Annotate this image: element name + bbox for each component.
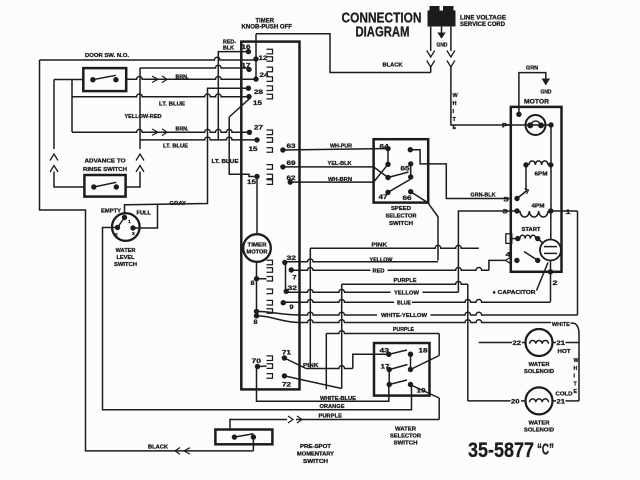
svg-text:1: 1 (128, 219, 131, 225)
speed selector mid-left contact (385, 172, 408, 180)
label RED (373, 269, 385, 275)
svg-text:15: 15 (247, 179, 256, 186)
part number 35-5877 C (468, 439, 554, 462)
label PINK (upper) (372, 242, 388, 248)
svg-text:SOLENOID: SOLENOID (524, 369, 554, 375)
label WATER SOLENOID hot (524, 362, 554, 375)
wire left loop from row 12 down and around to BLACK (40, 60, 254, 451)
svg-text:8: 8 (254, 319, 258, 326)
svg-text:WATER: WATER (529, 362, 550, 368)
timer terminal 12 (253, 55, 272, 62)
svg-text:LT. BLUE: LT. BLUE (212, 159, 239, 165)
label YELLOW (row to motor 3) (394, 291, 420, 297)
svg-text:YEL-BLK: YEL-BLK (328, 161, 352, 167)
svg-text:66: 66 (403, 195, 412, 202)
wire cold solenoid 20 row (468, 400, 526, 402)
svg-text:BLACK: BLACK (148, 444, 168, 450)
wire WHITE row timer 8 to hot solenoid 21 (257, 316, 300, 323)
water level switch contact 2 (115, 225, 120, 238)
label ORANGE (320, 404, 345, 410)
svg-text:MOTOR: MOTOR (524, 100, 550, 106)
svg-text:BLUE: BLUE (397, 301, 411, 307)
svg-text:E: E (574, 389, 578, 395)
speed selector contact 66 (403, 189, 414, 202)
wire plug left pin with connector chevrons (427, 27, 435, 73)
svg-text:27: 27 (254, 125, 263, 132)
timer terminal 69 (267, 160, 296, 170)
wire timer motor bottom to terminal 8 (256, 262, 258, 316)
label WHITE (inline) (552, 322, 570, 328)
connector chevron at motor 4 (506, 257, 511, 263)
pre-spot momentary switch box (215, 430, 272, 445)
label DOOR SW. N.O. (85, 53, 129, 59)
svg-text:LT. BLUE: LT. BLUE (159, 102, 185, 108)
motor speed switch lever and terminal 5 (504, 189, 529, 204)
label PURPLE (row 72) (394, 278, 417, 284)
svg-text:PRE-SPOT: PRE-SPOT (300, 444, 332, 450)
connector arrows BLACK row (175, 448, 190, 455)
svg-text:24: 24 (260, 72, 269, 79)
svg-text:69: 69 (287, 160, 296, 167)
timer motor circle (243, 234, 271, 262)
svg-text:SPEED: SPEED (391, 206, 411, 212)
wire WH-PUR from terminal 63 to speed selector 64 (283, 149, 388, 150)
svg-text:7: 7 (293, 274, 297, 281)
svg-text:SELECTOR: SELECTOR (386, 214, 417, 220)
wire WHITE-BLUE timer 70 to water selector (257, 367, 389, 402)
label YEL-BLK (328, 161, 352, 167)
pre-spot switch contacts and lever (232, 434, 256, 440)
svg-text:32: 32 (288, 285, 298, 292)
wire PURPLE selector top run (326, 331, 439, 334)
wire rinse switch left riser with chevrons to door wire (50, 80, 84, 188)
wire RED-BLK riser from terminal 16 (218, 52, 248, 140)
label WATER SOLENOID cold (524, 421, 554, 434)
wire speed selector 66 to yellow row (411, 192, 438, 261)
label RED-BLK (223, 40, 236, 52)
wire row to terminal 17 from yellow-red riser (140, 65, 249, 68)
water selector lower contacts (387, 380, 414, 387)
wire WHITE riser between solenoids (578, 343, 580, 401)
label LINE VOLTAGE SERVICE CORD (460, 16, 506, 29)
wire GRN-BLK speed selector 65 to motor 5 (428, 164, 511, 199)
label WATER SELECTOR SWITCH (390, 427, 421, 447)
wire YELLOW row timer 32b to motor 3 (286, 289, 390, 292)
speed selector contact 64 pair (380, 143, 391, 167)
svg-text:4PM: 4PM (532, 204, 545, 210)
ground symbol GND of cord (437, 27, 448, 49)
svg-text:YELLOW: YELLOW (370, 257, 394, 263)
svg-text:21: 21 (557, 399, 566, 405)
wire water level contact 3 to gray junction (133, 205, 158, 229)
wire PINK link to selector 43 (310, 366, 353, 369)
timer terminal 9 (267, 300, 294, 311)
svg-text:16: 16 (242, 44, 251, 51)
timer terminal 32a (267, 255, 297, 265)
wire motor circle to right bus (548, 122, 553, 165)
svg-text:15: 15 (249, 146, 258, 153)
label MOTOR (524, 100, 550, 106)
svg-text:WHITE: WHITE (552, 322, 570, 328)
timer terminal 15a (246, 94, 272, 107)
svg-text:3: 3 (132, 231, 135, 237)
label GRAY (170, 201, 187, 207)
svg-text:RINSE SWITCH: RINSE SWITCH (83, 167, 127, 173)
svg-text:PURPLE: PURPLE (319, 413, 343, 419)
timer knob riser to terminal 12 (255, 34, 257, 59)
wire WHITE-YELLOW row timer 8 to motor 1 (257, 311, 300, 315)
timer terminal 27 (247, 125, 273, 135)
svg-text:SOLENOID: SOLENOID (524, 427, 554, 433)
svg-text:71: 71 (282, 350, 291, 357)
timer terminal 16 (242, 44, 273, 54)
label WHITE-YELLOW (381, 313, 428, 319)
timer terminal 72 (267, 373, 292, 388)
wire PURPLE pre-spot run (230, 420, 439, 430)
svg-text:GRAY: GRAY (170, 201, 187, 207)
svg-text:MOMENTARY: MOMENTARY (297, 452, 335, 458)
label BRN (door) (176, 75, 189, 81)
timer terminal 62 (267, 175, 296, 185)
svg-text:BRN.: BRN. (176, 75, 189, 81)
svg-text:H: H (453, 101, 457, 107)
svg-text:63: 63 (287, 143, 296, 150)
svg-text:28: 28 (254, 89, 263, 96)
svg-text:SERVICE CORD: SERVICE CORD (460, 22, 506, 28)
svg-text:SWITCH: SWITCH (394, 441, 418, 447)
svg-text:BLK: BLK (223, 46, 234, 52)
water selector switch box (374, 343, 430, 396)
wire GRN motor to ground (519, 73, 546, 115)
label P and motor terminal P (502, 124, 551, 130)
water level switch contact 1 (122, 215, 131, 225)
wire water level contact 2 to orange run (103, 228, 412, 410)
motor start switch contacts terminal 4 (506, 252, 541, 264)
water level switch circle (112, 213, 140, 241)
svg-text:HOT: HOT (558, 349, 572, 355)
svg-text:DIAGRAM: DIAGRAM (356, 25, 410, 41)
svg-text:SWITCH: SWITCH (114, 262, 137, 268)
timer terminal 63 (267, 143, 296, 153)
wire plug right pin WHITE with connector chevrons (447, 27, 511, 125)
speed selector switch box (374, 139, 429, 202)
label PURPLE (pre-spot) (319, 413, 343, 419)
wire cold solenoid 21 row (553, 400, 580, 402)
wire BLACK from timer knob to line cord (256, 34, 431, 73)
water selector mid right contact (408, 367, 413, 372)
wire BRN row from door riser to terminal 27 (72, 129, 249, 132)
label GRN (526, 66, 538, 72)
label WATER LEVEL SWITCH (114, 248, 137, 268)
water selector contact 43 (380, 348, 408, 357)
svg-text:MOTOR: MOTOR (247, 250, 268, 256)
connector arrows BRN row 27 (152, 129, 167, 136)
svg-text:BLACK: BLACK (383, 63, 403, 69)
svg-text:GRN: GRN (526, 66, 538, 72)
svg-text:62: 62 (287, 175, 296, 182)
svg-text:LINE VOLTAGE: LINE VOLTAGE (460, 16, 506, 22)
svg-text:TIMER: TIMER (248, 243, 267, 249)
capacitor circle in motor (540, 240, 561, 261)
wire BLUE row timer 9 to capacitor 2 (283, 300, 394, 303)
label 22 (513, 341, 522, 347)
svg-text:GND: GND (437, 43, 448, 49)
svg-text:LEVEL: LEVEL (117, 255, 136, 261)
wire LT BLUE riser to terminal 15c (229, 117, 257, 177)
label 20 (511, 399, 520, 405)
svg-text:WHITE-BLUE: WHITE-BLUE (320, 396, 356, 402)
label YELLOW (row to 66) (370, 257, 394, 263)
svg-text:70: 70 (252, 358, 262, 365)
wire PINK row to hot solenoid 22 (310, 245, 479, 248)
svg-text:PURPLE: PURPLE (394, 278, 417, 284)
svg-text:H: H (574, 366, 578, 372)
timer terminal 24 (253, 72, 272, 82)
connector arrows pre-spot purple (288, 416, 302, 423)
timer terminal 28 (246, 86, 273, 97)
svg-text:KNOB-PUSH OFF: KNOB-PUSH OFF (242, 25, 293, 31)
wire yellow-red riser from row 17 to rinse switch right with chevrons (126, 68, 144, 187)
speed selector contact 65 pair (401, 161, 414, 180)
timer jumper 12-24 (255, 59, 257, 79)
wire start winding to centrifugal circle (538, 239, 544, 244)
wire PINK riser from terminal 71 (284, 248, 310, 368)
svg-text:35-5877: 35-5877 (468, 439, 534, 462)
svg-text:TIMER: TIMER (256, 18, 275, 24)
svg-text:2: 2 (115, 232, 118, 238)
svg-text:“C”: “C” (537, 442, 554, 459)
svg-text:BRN.: BRN. (176, 126, 189, 132)
svg-text:♦ CAPACITOR: ♦ CAPACITOR (493, 290, 536, 296)
wire YEL-BLK from terminal 69 to speed selector (283, 167, 388, 178)
label ADVANCE TO RINSE SWITCH (83, 158, 127, 173)
line cord plug (428, 6, 456, 27)
motor right bus to capacitor (550, 211, 552, 240)
motor box (511, 107, 562, 272)
svg-text:15: 15 (253, 100, 262, 107)
door switch box (83, 68, 126, 91)
label LT. BLUE (row 15b) (163, 144, 188, 150)
timer terminal 32b (267, 285, 298, 294)
svg-text:SWITCH: SWITCH (389, 221, 413, 227)
label BLACK (cord) (383, 63, 403, 69)
label HOT (558, 349, 572, 355)
water selector contact 18 (408, 348, 428, 370)
svg-text:WH-BRN: WH-BRN (328, 177, 352, 183)
svg-text:PINK: PINK (372, 242, 388, 248)
water level switch contact 3 (130, 225, 135, 237)
motor start terminal lug (506, 234, 518, 244)
label 21 hot (557, 341, 566, 347)
svg-text:YELLOW: YELLOW (394, 291, 420, 297)
svg-text:SWITCH: SWITCH (303, 459, 328, 465)
svg-text:22: 22 (513, 341, 522, 347)
wire hot solenoid 22 row (479, 342, 525, 344)
wire RED row timer 7 to motor 4 (291, 268, 370, 271)
label WH-PUR (330, 144, 352, 150)
motor GRN junction dot (516, 112, 521, 117)
svg-text:COLD: COLD (556, 391, 573, 397)
ground symbol GND (motor) (541, 79, 552, 96)
svg-text:WH-PUR: WH-PUR (330, 144, 352, 150)
timer terminal 8 upper (251, 276, 273, 287)
svg-text:WHITE-YELLOW: WHITE-YELLOW (381, 313, 428, 319)
label GRN-BLK (471, 192, 496, 198)
rinse switch contacts and lever (91, 182, 119, 189)
svg-text:ORANGE: ORANGE (320, 404, 345, 410)
wire 6PM to speed contact (525, 165, 527, 191)
wire door switch right BRN to terminal 24 (126, 77, 256, 80)
timer terminal 15c (247, 174, 273, 186)
label 21 cold (557, 399, 566, 405)
label PINK (lower) (303, 363, 319, 369)
advance to rinse switch box (84, 175, 125, 197)
title CONNECTION DIAGRAM (342, 11, 422, 41)
wire row to terminal 12 over door switch (40, 57, 257, 60)
wire YELLOW row timer 32a to speed selector 66 riser (285, 259, 438, 262)
label START (522, 227, 542, 233)
timer terminal 71 (267, 350, 292, 361)
motor terminal 1 wire (551, 210, 578, 216)
label WHITE vertical (cord to motor) (453, 93, 459, 131)
svg-text:YELLOW-RED: YELLOW-RED (125, 114, 162, 120)
label FULL (137, 210, 152, 216)
label WH-BRN (328, 177, 352, 183)
label COLD (556, 391, 573, 397)
label BLACK (bottom) (148, 444, 168, 450)
label PURPLE (selector top) (393, 327, 414, 333)
timer terminal 15b (249, 137, 273, 153)
svg-text:PURPLE: PURPLE (393, 327, 414, 333)
svg-text:FULL: FULL (137, 210, 152, 216)
svg-text:8: 8 (251, 280, 255, 287)
svg-text:GND: GND (541, 90, 552, 96)
wire WH-BRN from terminal 62 to speed selector (290, 164, 388, 182)
label LT. BLUE (row 15a) (159, 102, 185, 108)
svg-text:32: 32 (287, 255, 297, 262)
wire selector right riser and diagonal to contact 18 (411, 334, 440, 370)
label YELLOW-RED (125, 114, 162, 120)
svg-text:WATER: WATER (116, 248, 136, 254)
svg-text:47: 47 (379, 194, 388, 201)
wire hot solenoid 21 row (553, 342, 579, 344)
label PRE-SPOT MOMENTARY SWITCH (297, 444, 335, 465)
timer terminal 17 (242, 63, 273, 73)
wire capacitor bottom terminal 2 (548, 261, 559, 302)
svg-text:SELECTOR: SELECTOR (390, 434, 421, 440)
wire timer motor top to terminal 15c (256, 177, 258, 235)
motor start winding (515, 235, 540, 241)
label LT. BLUE (riser 15c) (212, 159, 239, 165)
svg-text:W: W (453, 93, 459, 99)
svg-text:LT. BLUE: LT. BLUE (163, 144, 188, 150)
motor main winding circle (526, 115, 546, 135)
svg-text:RED: RED (373, 269, 385, 275)
wire PURPLE row timer 72 to cold solenoid 20 (284, 284, 341, 388)
svg-text:START: START (522, 227, 542, 233)
svg-text:20: 20 (511, 399, 520, 405)
svg-text:21: 21 (557, 341, 566, 347)
water selector contact 19 (417, 387, 426, 394)
wire pre-spot to BLACK row (252, 437, 254, 451)
water level switch lever 1-2 (118, 218, 125, 228)
label WHITE vertical (solenoids) (574, 358, 579, 395)
speed selector contact 47 (379, 180, 411, 202)
label SPEED SELECTOR SWITCH (386, 206, 417, 227)
timer assembly box (241, 42, 299, 390)
speed selector top right contact (408, 147, 429, 164)
svg-text:DOOR SW. N.O.: DOOR SW. N.O. (85, 53, 129, 59)
hot water solenoid circle (526, 329, 553, 356)
svg-text:72: 72 (282, 382, 291, 389)
svg-text:W: W (574, 358, 579, 364)
svg-text:WATER: WATER (529, 421, 550, 427)
connector arrows BRN door switch wire (152, 76, 167, 83)
timer terminal 8 lower (254, 309, 273, 327)
svg-text:18: 18 (419, 348, 428, 355)
label BLUE (397, 301, 411, 307)
label BRN (row 27) (176, 126, 189, 132)
timer terminal 7 (267, 267, 297, 281)
svg-text:E: E (453, 125, 457, 131)
label 4PM (532, 204, 545, 210)
wire selector 19 diagonal to pre-spot run (412, 386, 439, 420)
svg-text:9: 9 (290, 304, 294, 311)
wire door switch left to BRN row (terminal 27) (54, 80, 83, 133)
svg-text:GRN-BLK: GRN-BLK (471, 192, 496, 198)
label TIMER KNOB-PUSH OFF (242, 18, 293, 30)
door switch contacts and lever (90, 75, 118, 82)
timer jumper 32-32 (285, 263, 287, 292)
svg-text:65: 65 (401, 166, 410, 173)
cold water solenoid circle (526, 387, 553, 414)
label EMPTY (101, 209, 121, 215)
label WHITE-BLUE (320, 396, 356, 402)
svg-text:6PM: 6PM (535, 172, 548, 178)
motor 6PM winding (523, 161, 553, 178)
motor terminal 3 and 4PM winding (503, 208, 554, 217)
svg-text:EMPTY: EMPTY (101, 209, 121, 215)
wire LT BLUE row to terminal 15a from rinse switch left (72, 94, 249, 97)
label CAPACITOR with leader (493, 263, 549, 297)
wire GRAY from water level switch to terminal 28 (125, 88, 249, 213)
water selector contact 17 (381, 364, 408, 385)
svg-text:WATER: WATER (395, 427, 416, 433)
diagonal link 15a to LT BLUE riser (229, 98, 250, 117)
wire LT BLUE row to terminal 15b (140, 137, 257, 140)
timer terminal 70 (252, 358, 273, 369)
svg-text:ADVANCE TO: ADVANCE TO (85, 158, 127, 164)
